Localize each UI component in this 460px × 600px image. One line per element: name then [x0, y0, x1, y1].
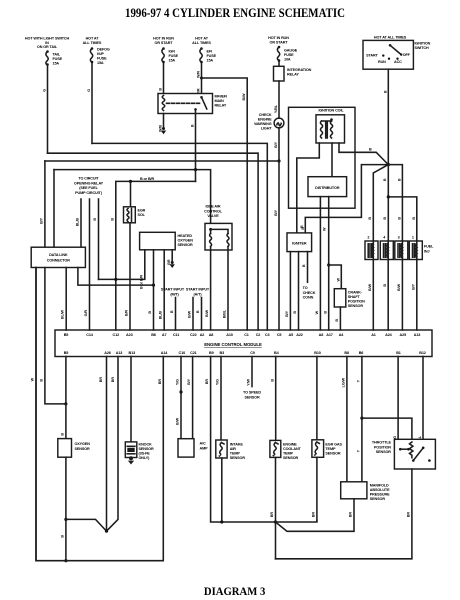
knock sensor B4 [125, 442, 154, 460]
crankshaft position sensor B2 [334, 289, 365, 308]
svg-text:RUN: RUN [378, 60, 386, 64]
svg-text:SENSOR: SENSOR [370, 497, 386, 501]
wire: coolant sensor ground with diagonal splice [275, 457, 277, 522]
svg-text:G/R: G/R [84, 310, 88, 317]
wire: EGR gas temp sensor ground leg label BR [316, 457, 318, 520]
svg-text:DATA LINK: DATA LINK [49, 253, 68, 257]
svg-text:(A/T): (A/T) [194, 292, 203, 296]
wire: ECM B12 to throttle sensor, label BL [422, 357, 424, 440]
svg-text:C10: C10 [179, 351, 186, 355]
wire defog down, label G [91, 63, 93, 143]
start input (M/T) stub to ECM pin C11 [161, 288, 185, 331]
svg-text:INTEGRATION: INTEGRATION [287, 68, 312, 72]
svg-text:ENGINE CONTROL MODULE: ENGINE CONTROL MODULE [204, 342, 262, 347]
svg-text:PUMP CIRCUIT): PUMP CIRCUIT) [75, 191, 103, 195]
svg-text:B: B [398, 217, 402, 220]
svg-text:B: B [368, 217, 372, 220]
EGR solenoid SOL1 [124, 181, 146, 222]
fuse GAUGE 10A [277, 46, 297, 62]
wire efi fuse to relay with junction [201, 63, 203, 94]
svg-text:B: B [383, 217, 387, 220]
svg-text:WARNING: WARNING [254, 122, 271, 126]
svg-text:2: 2 [367, 236, 369, 240]
intake air temp sensor B5 [216, 440, 246, 460]
svg-text:RELAY: RELAY [287, 73, 299, 77]
integration relay U2 [274, 62, 312, 82]
svg-text:C2: C2 [256, 333, 261, 337]
svg-text:SENSOR: SENSOR [75, 447, 91, 451]
fuse DEFOG 15A [90, 47, 110, 65]
wire: DLC pin to O2 signal join [45, 268, 66, 404]
wire: ECM C9 speed sensor stub [251, 357, 253, 387]
relay output wire down to IAC feed line, label B [195, 110, 197, 181]
svg-text:Y/BL: Y/BL [274, 104, 278, 113]
wire: ECM C21 to A/C amp [192, 357, 194, 439]
svg-text:B1: B1 [396, 351, 401, 355]
wire: IAC right winding to ECM pin A10 [227, 247, 229, 330]
svg-text:BR: BR [99, 377, 103, 383]
wire: ECM B5 to oxygen sensor [65, 357, 67, 439]
svg-text:EFI: EFI [207, 50, 213, 54]
svg-text:I/UP: I/UP [97, 52, 104, 56]
svg-text:IGNITION: IGNITION [415, 42, 431, 46]
svg-text:AIR: AIR [230, 447, 237, 451]
svg-text:A/C: A/C [200, 442, 207, 446]
svg-text:OPENING RELAY: OPENING RELAY [74, 181, 104, 185]
svg-text:BR: BR [270, 512, 274, 518]
svg-text:3: 3 [398, 236, 400, 240]
fuel injector 4 [380, 241, 393, 260]
svg-text:FUSE: FUSE [284, 53, 294, 57]
svg-text:Y/G: Y/G [176, 379, 180, 385]
start input (A/T) stubs to ECM pins C22 A2 [186, 288, 210, 331]
svg-text:TO: TO [303, 286, 308, 290]
ignition assembly outer box [289, 107, 356, 208]
wire: circuit opening relay col3 to O2 sensor line [98, 199, 100, 279]
svg-text:B: B [369, 148, 372, 152]
ground [161, 127, 166, 134]
svg-text:C22: C22 [190, 333, 197, 337]
svg-text:A22: A22 [296, 333, 303, 337]
svg-text:15A: 15A [207, 59, 214, 63]
wire: DLC pin2 / relay output to IAC valve [54, 170, 211, 230]
wire: distributor G to ECM pin A17 and crank sensor branch, label B [328, 197, 330, 330]
svg-text:CHECK: CHECK [259, 113, 272, 117]
node: main junction [387, 163, 390, 166]
svg-text:SENSOR: SENSOR [283, 456, 299, 460]
ECM top row pin labels [64, 333, 421, 337]
to circuit opening relay text [74, 177, 104, 195]
fuse TAIL 15A [46, 50, 63, 66]
svg-text:15A: 15A [97, 61, 104, 65]
wire: DLC pin to ECM pin B5 top, label BL/W [65, 268, 67, 331]
svg-text:POSITION: POSITION [348, 300, 365, 304]
wire: EGR solenoid to ECM pin A23 [129, 223, 131, 330]
svg-text:B3: B3 [220, 351, 225, 355]
svg-text:B9: B9 [209, 351, 214, 355]
svg-text:BR: BR [205, 379, 209, 385]
engine coolant temp sensor B6 [270, 440, 302, 460]
svg-text:HOT AT ALL TIMES: HOT AT ALL TIMES [374, 36, 407, 40]
svg-text:LIGHT: LIGHT [261, 127, 272, 131]
svg-text:VALVE: VALVE [207, 214, 219, 218]
fuse EFI 15A [200, 47, 217, 63]
wire: ECM B3 to intake air temp sensor [220, 357, 222, 441]
svg-text:B/W: B/W [188, 310, 192, 318]
wire: MAP sensor ground, label BR [276, 499, 355, 559]
svg-text:BR: BR [312, 512, 316, 518]
svg-text:B/W: B/W [397, 283, 401, 291]
svg-text:OR START: OR START [270, 40, 289, 44]
wire: distributor NE to ECM pin A8, labels W [319, 197, 321, 330]
svg-text:EGR: EGR [138, 209, 146, 213]
svg-text:OXYGEN: OXYGEN [178, 239, 194, 243]
svg-text:BL/B: BL/B [76, 218, 80, 227]
svg-text:CRANK-: CRANK- [348, 291, 363, 295]
svg-text:B or B/R: B or B/R [140, 275, 144, 289]
svg-text:B: B [383, 178, 387, 181]
svg-text:ONLY): ONLY) [139, 456, 151, 460]
svg-text:(SEE FUEL: (SEE FUEL [79, 186, 98, 190]
wire: coil secondary to distributor [331, 143, 333, 177]
wire light to diag bus and ECM pin C5, labels B/Y [278, 128, 280, 330]
svg-text:CONNECTOR: CONNECTOR [47, 259, 70, 263]
svg-text:ALL TIMES: ALL TIMES [83, 41, 102, 45]
svg-text:B: B [383, 90, 387, 93]
EGR gas temp sensor B7 [312, 440, 343, 458]
wire: igniter to check connector stub [307, 252, 309, 283]
wire: coil primary to igniter (jog) [297, 143, 320, 233]
svg-text:SENSOR: SENSOR [325, 452, 341, 456]
svg-text:B: B [159, 88, 163, 91]
svg-text:BL/B: BL/B [159, 311, 163, 320]
svg-text:B10: B10 [314, 351, 321, 355]
svg-text:A13: A13 [116, 351, 123, 355]
wire: ECM B8 to MAP sensor, label LG/W [346, 357, 348, 482]
wire: main junction to igniter feed line [305, 165, 388, 233]
wire: diagnostic bus DLC pin1 to light wire [45, 160, 279, 162]
svg-text:ACC: ACC [394, 60, 402, 64]
svg-text:B/R: B/R [125, 310, 129, 317]
svg-text:CONN: CONN [303, 296, 314, 300]
svg-text:G: G [43, 89, 47, 92]
svg-text:(3S-FE: (3S-FE [139, 452, 151, 456]
wire: ECM A14 to left ground bus [36, 268, 163, 561]
svg-text:MAIN: MAIN [215, 99, 225, 103]
svg-text:B/W: B/W [368, 283, 372, 291]
hot feed label: efi [192, 37, 211, 45]
svg-text:IGN: IGN [169, 50, 176, 54]
svg-text:C12: C12 [113, 333, 120, 337]
svg-text:SOL: SOL [138, 213, 146, 217]
svg-text:DIAGRAM 3: DIAGRAM 3 [204, 584, 266, 598]
svg-text:W: W [31, 377, 35, 381]
wire: DLC pin to O2 sensor pin2 line [78, 268, 154, 286]
svg-text:DISTRIBUTOR: DISTRIBUTOR [315, 186, 340, 190]
wire: IAC left winding to ECM pin A8 [210, 247, 212, 330]
svg-text:A17: A17 [326, 333, 333, 337]
svg-text:EGR GAS: EGR GAS [325, 443, 342, 447]
svg-text:LG/W: LG/W [342, 377, 346, 387]
wire: intake air temp sensor to ground line [221, 458, 223, 522]
svg-text:C1: C1 [244, 333, 249, 337]
svg-text:IDLE AIR: IDLE AIR [206, 205, 221, 209]
svg-text:FUSE: FUSE [53, 57, 63, 61]
svg-text:10A: 10A [284, 58, 291, 62]
wires: injectors to ECM pins A1 A24 A25 A13 [372, 260, 374, 331]
svg-text:W/R: W/R [197, 71, 201, 78]
wire: injector feed 4 (branch at 197) [388, 197, 417, 241]
wire: relay output branch to EGR feed line [116, 181, 196, 330]
ignition switch SW1 [363, 40, 431, 69]
oxygen sensor B3 [58, 439, 90, 458]
wire tail fuse down, label G [47, 66, 49, 154]
svg-text:B13: B13 [129, 351, 136, 355]
wire: coil B+ to main junction, label B [339, 143, 388, 165]
igniter U4 [287, 233, 312, 252]
hot feed label: ign [153, 37, 174, 45]
hot feed label: defog [83, 37, 102, 45]
svg-text:A24: A24 [385, 333, 393, 337]
manifold absolute pressure sensor B9 [341, 482, 390, 501]
svg-text:B: B [301, 227, 305, 230]
svg-text:FUSE: FUSE [207, 54, 217, 58]
svg-text:W: W [315, 310, 319, 314]
svg-text:C3: C3 [265, 333, 270, 337]
svg-text:IGNITER: IGNITER [292, 242, 307, 246]
wire integration relay to warning light, label Y/BL [278, 81, 280, 118]
svg-text:B/BL: B/BL [223, 309, 227, 318]
wire: igniter to ECM pin A22, label B [298, 252, 300, 330]
svg-text:B: B [40, 379, 44, 382]
wire: supply branch into throttle sensor [362, 418, 412, 442]
ground [170, 261, 175, 268]
hot feed label: gauge [268, 36, 289, 44]
svg-text:TEMP: TEMP [283, 452, 294, 456]
svg-text:SHAFT: SHAFT [348, 295, 361, 299]
wire: O2 pin2 to ECM pin B6 [153, 250, 155, 330]
wire: crank sensor to ECM pin A4, label B [339, 307, 341, 330]
svg-text:B: B [335, 319, 339, 322]
svg-text:1: 1 [412, 236, 414, 240]
svg-text:15A: 15A [53, 62, 60, 66]
check engine warning light L1 [254, 113, 284, 131]
svg-text:CHECK: CHECK [303, 291, 316, 295]
heated oxygen sensor B1 [140, 232, 194, 250]
node: diag bus junction on light wire [277, 159, 280, 162]
svg-text:W: W [336, 278, 340, 282]
svg-text:FUEL: FUEL [424, 245, 434, 249]
wire: oxygen sensor ground run to bus [65, 457, 67, 561]
svg-text:B5: B5 [64, 351, 69, 355]
svg-text:START: START [366, 54, 378, 58]
svg-text:B: B [383, 284, 387, 287]
svg-text:TO SPEED: TO SPEED [243, 391, 261, 395]
wire: crank sensor feed from distributor G node [329, 265, 342, 289]
svg-text:DEFOG: DEFOG [97, 48, 110, 52]
wire: DLC upper pins [44, 161, 46, 247]
ECM bottom row pin labels [64, 351, 426, 355]
fuel injector 1 [409, 241, 422, 260]
wire efi junction to ECM pin C1 [202, 78, 248, 330]
svg-text:B/W: B/W [205, 309, 209, 317]
svg-text:SENSOR: SENSOR [348, 304, 364, 308]
svg-text:A7: A7 [162, 333, 167, 337]
wire: ECM B13 to knock sensor [130, 357, 132, 447]
svg-text:B/Y: B/Y [274, 141, 278, 148]
svg-text:BR: BR [407, 512, 411, 518]
svg-text:B: B [293, 311, 297, 314]
svg-text:INTAKE: INTAKE [230, 443, 244, 447]
wire: injector feed 1 (diagonal from junction) [373, 165, 388, 241]
wire ign fuse to relay, label B [163, 63, 165, 94]
svg-text:B/Y: B/Y [40, 217, 44, 224]
svg-text:B12: B12 [419, 351, 426, 355]
svg-text:A5: A5 [289, 333, 294, 337]
svg-text:B/W: B/W [176, 417, 180, 425]
wire: O2 pin1 to C12 line, label B or B/R [99, 250, 145, 280]
wire: ECM B4 to coolant temp sensor [275, 357, 277, 441]
wire: injector feed 3 (branch right) [388, 165, 402, 241]
svg-text:B: B [302, 264, 306, 267]
svg-text:SENSOR: SENSOR [230, 456, 246, 460]
svg-text:TEMP: TEMP [230, 452, 241, 456]
wire: ECM C10 to A/C amp [180, 357, 182, 439]
svg-text:B/Y: B/Y [411, 283, 415, 290]
wire: ECM B9 to sensor ground line [211, 357, 317, 523]
svg-text:B: B [148, 311, 152, 314]
svg-text:C14: C14 [86, 333, 94, 337]
idle air control valve M1 [204, 205, 232, 251]
svg-text:C9: C9 [250, 351, 255, 355]
svg-text:B/W: B/W [242, 93, 246, 101]
svg-text:B: B [93, 218, 97, 221]
ground below knock sensor [128, 456, 134, 464]
svg-text:TAIL: TAIL [53, 53, 61, 57]
svg-text:ABSOLUTE: ABSOLUTE [370, 488, 390, 492]
wire: ECM B1 to throttle sensor, label LG [397, 357, 399, 440]
svg-text:A8: A8 [319, 333, 324, 337]
wire ignition switch to main junction, label B [387, 69, 389, 164]
svg-text:B: B [412, 217, 416, 220]
svg-text:BR: BR [349, 512, 353, 518]
wire: throttle sensor ground to bottom bus, label BR [276, 469, 412, 559]
svg-text:1996-97 4 CYLINDER ENGINE SCH: 1996-97 4 CYLINDER ENGINE SCHEMATIC [125, 6, 345, 20]
svg-text:A26: A26 [104, 351, 111, 355]
svg-text:OFF: OFF [403, 53, 411, 57]
svg-text:SWITCH: SWITCH [415, 46, 429, 50]
svg-text:C5: C5 [277, 333, 282, 337]
svg-text:A2: A2 [200, 333, 205, 337]
fuel injector 3 [395, 241, 408, 260]
svg-text:PRESSURE: PRESSURE [370, 493, 390, 497]
throttle position sensor B8 [372, 439, 436, 469]
svg-text:B6: B6 [359, 351, 364, 355]
svg-text:B: B [110, 218, 114, 221]
svg-text:BR: BR [167, 259, 171, 265]
svg-text:A1: A1 [371, 333, 376, 337]
svg-text:SENSOR: SENSOR [139, 447, 155, 451]
wire: O2 pin4 to ground, label BR [171, 250, 173, 262]
svg-text:A14: A14 [161, 351, 169, 355]
svg-text:A23: A23 [126, 333, 133, 337]
svg-text:B: B [61, 535, 65, 538]
svg-text:B: B [170, 310, 174, 313]
svg-text:B8: B8 [344, 351, 349, 355]
svg-text:B: B [196, 310, 200, 313]
svg-text:B: B [398, 178, 402, 181]
svg-text:OR START: OR START [155, 41, 174, 45]
wire: tail bus to ECM pin C2 [48, 153, 259, 330]
svg-text:HEATED: HEATED [178, 234, 193, 238]
wire: ground splice V junction [66, 357, 118, 532]
hot feed label: tail circuit [25, 37, 70, 50]
svg-text:A13: A13 [414, 333, 421, 337]
svg-text:G: G [87, 89, 91, 92]
svg-text:SENSOR: SENSOR [244, 395, 260, 399]
fuel injector 2 [365, 241, 378, 260]
svg-text:A25: A25 [400, 333, 407, 337]
engine control module U5 [55, 330, 432, 357]
svg-text:BL/W: BL/W [61, 309, 65, 319]
svg-text:GAUGE: GAUGE [284, 49, 298, 53]
data link connector J1 [31, 247, 85, 267]
svg-text:ENGINE: ENGINE [258, 118, 272, 122]
svg-text:B or B/R: B or B/R [140, 177, 154, 181]
svg-text:Y/G: Y/G [216, 379, 220, 385]
svg-text:OXYGEN: OXYGEN [75, 442, 91, 446]
svg-text:KNOCK: KNOCK [139, 443, 153, 447]
wire: ECM B10 to EGR gas temp sensor [316, 357, 318, 440]
svg-text:B6: B6 [151, 333, 156, 337]
svg-text:B/Y: B/Y [285, 310, 289, 317]
wire: defog bus to ECM pin C3 [92, 143, 267, 330]
svg-text:B: B [270, 379, 274, 382]
svg-text:W: W [323, 227, 327, 231]
svg-text:RELAY: RELAY [215, 104, 227, 108]
distributor U3 [308, 177, 347, 197]
wire: igniter to ECM pin A5, label B/Y [289, 252, 291, 330]
svg-text:MFI/EFI: MFI/EFI [215, 95, 228, 99]
wire: ECM B6 sensor supply to throttle + MAP, label Y [361, 357, 363, 482]
svg-text:START INPUT: START INPUT [186, 288, 210, 292]
svg-text:C11: C11 [173, 333, 179, 337]
svg-text:BR: BR [158, 379, 162, 385]
wire: O2 pin3 to ECM pin A7 [163, 250, 165, 330]
A/C amplifier U6 [178, 439, 208, 457]
svg-text:C21: C21 [190, 351, 197, 355]
svg-text:A10: A10 [226, 333, 233, 337]
svg-text:A8: A8 [209, 333, 214, 337]
svg-text:SENSOR: SENSOR [376, 450, 392, 454]
svg-text:BR: BR [111, 377, 115, 383]
svg-text:INJ: INJ [424, 249, 430, 253]
svg-text:IGNITION COIL: IGNITION COIL [318, 109, 344, 113]
MFI/EFI main relay U1 [158, 94, 227, 114]
svg-text:THROTTLE: THROTTLE [372, 441, 392, 445]
svg-text:FUSE: FUSE [169, 54, 179, 58]
wire: DLC pin to ground bus (left) [35, 268, 37, 561]
svg-text:B5: B5 [64, 333, 69, 337]
svg-text:B/Y: B/Y [274, 209, 278, 216]
svg-text:B: B [191, 124, 195, 127]
svg-text:ENGINE: ENGINE [283, 443, 297, 447]
wire: circuit opening relay col1 to DLC [80, 199, 82, 247]
svg-text:15A: 15A [169, 59, 176, 63]
relay coil ground wire, label W/B [163, 114, 165, 129]
svg-text:CONTROL: CONTROL [204, 209, 223, 213]
svg-text:B: B [61, 433, 65, 436]
